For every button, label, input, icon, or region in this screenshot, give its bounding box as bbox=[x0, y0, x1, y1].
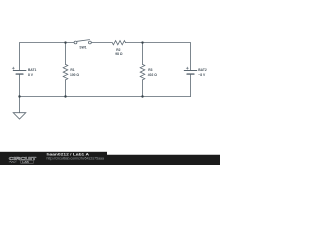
svg-text:LAB: LAB bbox=[22, 160, 29, 164]
svg-text:−8 V: −8 V bbox=[198, 73, 206, 77]
svg-text:BAT2: BAT2 bbox=[198, 68, 207, 72]
svg-text:BAT1: BAT1 bbox=[28, 68, 37, 72]
svg-text:402 Ω: 402 Ω bbox=[148, 73, 157, 77]
svg-text:98 Ω: 98 Ω bbox=[115, 52, 123, 56]
svg-text:R3: R3 bbox=[148, 68, 152, 72]
svg-text:100 Ω: 100 Ω bbox=[70, 73, 79, 77]
svg-text:R1: R1 bbox=[70, 68, 74, 72]
svg-text:http://circuitlab.com/c/hv54z2: http://circuitlab.com/c/hv54z2s75aaa bbox=[47, 156, 105, 160]
svg-text:8 V: 8 V bbox=[28, 73, 34, 77]
svg-text:SW1: SW1 bbox=[79, 45, 86, 49]
